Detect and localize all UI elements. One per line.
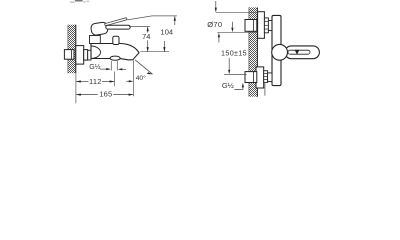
- dimension 104: [161, 16, 176, 52]
- crop mark top: [75, 0, 83, 2]
- aerator extension lines: [110, 61, 112, 71]
- pivot circle: [272, 44, 288, 60]
- neck: [88, 50, 91, 60]
- extension from raised lever tip: [127, 16, 177, 20]
- svg-text:40°: 40°: [136, 74, 147, 82]
- dimension 165: [76, 89, 133, 98]
- svg-text:165: 165: [99, 89, 112, 98]
- top nut (side view): [264, 18, 268, 33]
- bottom nut (side view): [264, 71, 268, 83]
- lever slot: [288, 50, 310, 54]
- handle cap: [90, 22, 108, 36]
- slot marker: [295, 50, 300, 55]
- dimension 74: [142, 27, 150, 52]
- collar under cap: [90, 36, 101, 44]
- bottom union tail (side view): [245, 72, 257, 83]
- wall hatch (side view): [249, 7, 258, 96]
- lever raised (phantom): [105, 18, 128, 26]
- svg-text:112: 112: [89, 77, 102, 86]
- escutcheon (front view): [76, 46, 84, 65]
- faucet body and spout: [91, 44, 139, 60]
- svg-text:150±15: 150±15: [221, 49, 247, 58]
- svg-text:104: 104: [161, 28, 174, 37]
- 150 +/- 15 dimension: [218, 33, 247, 75]
- wall hatch (front view): [68, 25, 76, 73]
- lever stadium (side view): [285, 46, 320, 59]
- svg-text:G½: G½: [222, 81, 234, 90]
- diverter knob: [113, 36, 119, 44]
- body left dome seam: [91, 46, 100, 58]
- lever horizontal: [106, 25, 130, 29]
- union nut: [84, 50, 88, 61]
- 40 degree leader: [126, 60, 152, 83]
- datum line at spout tip level: [140, 51, 169, 53]
- top union tail (side view): [245, 20, 257, 32]
- union tail square: [64, 50, 74, 60]
- mystery extension line: [264, 83, 266, 95]
- dimension 112: [76, 77, 114, 86]
- G1/2 inlet callout: [222, 81, 244, 90]
- dia 70 dimension: [207, 1, 257, 32]
- aerator: [110, 56, 120, 60]
- spout tip extension: [132, 60, 134, 96]
- wall face extension line: [75, 74, 77, 104]
- svg-text:Ø70: Ø70: [207, 20, 222, 29]
- extension from lever top: [129, 26, 150, 28]
- G1/2 outlet callout: [89, 63, 126, 71]
- svg-text:G½: G½: [89, 63, 100, 71]
- top neck (side view): [268, 21, 272, 31]
- bottom escutcheon (side view): [256, 67, 264, 88]
- outlet centre extension: [114, 72, 116, 87]
- svg-text:74: 74: [142, 32, 150, 41]
- top escutcheon (side view): [258, 12, 265, 39]
- body slab (side view): [272, 15, 281, 85]
- bottom neck (side view): [268, 73, 272, 82]
